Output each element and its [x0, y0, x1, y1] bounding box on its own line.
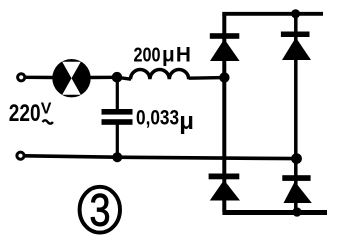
- svg-text:0,033: 0,033: [136, 107, 179, 130]
- svg-text:220: 220: [9, 99, 41, 127]
- svg-text:3: 3: [90, 185, 111, 236]
- svg-text:V: V: [41, 100, 52, 117]
- svg-text:μH: μH: [162, 43, 192, 66]
- svg-text:200: 200: [134, 43, 161, 66]
- svg-text:μ: μ: [179, 108, 194, 135]
